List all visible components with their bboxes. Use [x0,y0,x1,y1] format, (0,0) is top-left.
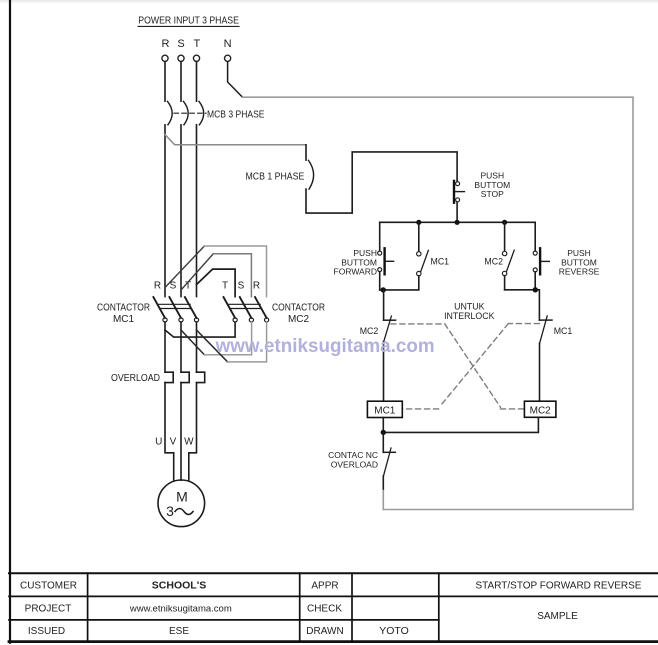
overload relay element pole3 [197,372,205,382]
motor M 3-phase [158,480,205,527]
svg-text:START/STOP FORWARD REVERSE: START/STOP FORWARD REVERSE [476,581,642,592]
svg-text:S: S [238,281,245,292]
overload relay element pole2 [181,372,189,382]
svg-text:PROJECT: PROJECT [25,604,72,615]
svg-text:MC2: MC2 [530,406,552,417]
title block text [20,580,642,638]
contactor MC2 input labels T S R [222,281,260,292]
phase labels R S T N [162,38,232,50]
svg-text:CONTACTOR: CONTACTOR [272,303,325,314]
wire phase T to contactor MC1 [196,125,198,297]
wire MC2 interlock to coil MC1 [383,342,385,402]
wire stop button to rail [456,203,458,223]
wire MC2 aux down [504,276,506,290]
label PUSH BUTTOM STOP [474,171,510,199]
interlock dashed link MC2-contact to MC2 coil [391,324,525,409]
label PUSH BUTTOM FORWARD [334,248,377,276]
terminal S [178,55,184,61]
svg-text:MC1: MC1 [554,326,573,336]
interlock contact MC1 (NC) right [539,316,552,343]
junction coil bus [381,430,386,435]
svg-text:MCB 3 PHASE: MCB 3 PHASE [207,109,265,120]
MCB 1 phase breaker (arc) [309,160,314,189]
interlock contact MC2 (NC) left [384,316,396,342]
svg-text:SCHOOL'S: SCHOOL'S [152,580,206,592]
junction reverse join [533,287,538,292]
coil MC1 [367,401,402,417]
svg-text:OVERLOAD: OVERLOAD [331,460,378,470]
crossover wire S to MC2 pole2 [181,254,251,297]
wire neutral loop (top, right side, bottom) [243,97,634,509]
wire MC1 aux down and join [380,276,419,290]
svg-text:R: R [154,281,161,292]
output bus U: MC1 pole1 to MC2 pole1 [165,322,235,337]
MCB 3 phase breaker poles (arcs) [168,101,204,124]
crossover wire T to MC2 pole1 [197,269,236,297]
label PUSH BUTTOM REVERSE [559,248,600,276]
contactor MC2 linkage bars [228,304,261,308]
svg-text:N: N [224,38,232,50]
wire phase T upper [196,62,198,101]
svg-text:OVERLOAD: OVERLOAD [111,373,160,384]
title block frame [9,573,658,641]
terminal R [162,55,168,61]
output bus W: MC1 pole3 to MC2 pole3 [197,322,267,362]
svg-text:MC1: MC1 [374,406,396,417]
coil MC2 [524,401,556,417]
aux contact MC1 (NO) [417,250,429,275]
svg-text:T: T [222,281,228,292]
wire MC1 interlock to coil MC2 [539,343,541,401]
svg-text:R: R [253,281,260,292]
wire rail to reverse button [534,222,536,251]
svg-text:CONTAC NC: CONTAC NC [328,450,378,460]
wire reverse button down and join [505,272,540,320]
svg-text:CHECK: CHECK [307,604,342,615]
junction rail-MC1 [416,220,421,225]
push button FORWARD (NO) [378,248,394,274]
label CONTACTOR MC2 [272,303,325,326]
terminal N [225,55,231,61]
wire rail to MC2 aux [504,222,506,251]
overload NC contact [383,448,395,476]
svg-text:www.etniksugitama.com: www.etniksugitama.com [215,336,435,357]
svg-text:V: V [170,437,177,448]
wire rail to MC1 aux [418,222,420,251]
svg-text:3: 3 [166,503,174,519]
wire branch R to MCB 1 phase [165,135,306,161]
wire W to motor [189,383,197,481]
coil output bus [383,417,538,432]
svg-text:POWER INPUT 3 PHASE: POWER INPUT 3 PHASE [138,15,239,27]
page left border [9,0,11,643]
label CONTAC NC OVERLOAD [328,450,378,470]
junction rail-MC2 [502,220,507,225]
contactor MC1 linkage bars [158,304,191,308]
wire forward join down [383,290,385,320]
wire forward button down [379,272,381,290]
title POWER INPUT 3 PHASE [138,15,239,27]
wire neutral N drop [228,62,243,97]
svg-text:MC2: MC2 [288,314,310,325]
wire phase S upper [180,62,182,101]
svg-text:SAMPLE: SAMPLE [537,611,578,622]
MCB 3 phase trip dashed line [174,112,206,114]
svg-text:MC2: MC2 [360,326,379,336]
wire V to motor [180,383,182,481]
svg-text:CONTACTOR: CONTACTOR [97,303,150,314]
svg-text:INTERLOCK: INTERLOCK [444,311,494,321]
wire overload NC to neutral [382,476,384,489]
svg-text:S: S [177,38,184,50]
wire rail to forward button [379,222,381,251]
contactor MC2 pole contacts [224,297,269,322]
wire bus to overload NC [382,432,384,452]
terminal T [193,55,199,61]
wire phase S to contactor MC1 [180,125,182,297]
control rail [380,221,536,223]
svg-text:DRAWN: DRAWN [306,626,343,637]
push button STOP (NC) [454,181,464,203]
wire MC1 outputs down [165,322,197,372]
wire phase R upper [164,62,166,101]
svg-text:YOTO: YOTO [379,625,409,637]
crossover wire R to MC2 pole3 [165,246,267,297]
svg-text:REVERSE: REVERSE [559,267,600,277]
svg-text:MCB 1 PHASE: MCB 1 PHASE [246,172,305,183]
svg-text:W: W [184,437,194,448]
svg-text:ISSUED: ISSUED [28,626,65,637]
labels U V W [155,437,194,448]
label UNTUK INTERLOCK [444,302,494,321]
interlock dashed link MC1-contact to MC1 coil [402,324,539,409]
junction rail-stop [455,220,460,225]
svg-text:FORWARD: FORWARD [334,267,377,277]
svg-text:MC2: MC2 [484,256,503,266]
contactor MC1 pole contacts [153,297,198,322]
output bus V: MC1 pole2 to MC2 pole2 [181,322,252,355]
overload relay element pole1 [165,372,173,382]
svg-text:ESE: ESE [169,626,189,637]
svg-text:T: T [194,38,201,50]
label CONTACTOR MC1 [97,303,150,326]
wire U to motor [165,383,174,481]
svg-text:CUSTOMER: CUSTOMER [20,581,77,592]
svg-text:APPR: APPR [311,581,338,592]
svg-text:M: M [176,489,188,505]
svg-text:MC1: MC1 [431,256,450,266]
junction forward join [381,287,386,292]
svg-text:MC1: MC1 [113,314,135,325]
wire MCB 1 phase to stop button [306,152,457,213]
contactor MC1 input labels R S T [154,281,191,292]
push button REVERSE (NO) [533,248,549,274]
aux contact MC2 (NO) [502,250,514,275]
wire phase R to contactor MC1 [164,125,166,297]
svg-text:R: R [162,38,170,50]
svg-text:STOP: STOP [481,189,504,199]
svg-text:www.etniksugitama.com: www.etniksugitama.com [129,603,232,614]
svg-text:U: U [155,437,162,448]
